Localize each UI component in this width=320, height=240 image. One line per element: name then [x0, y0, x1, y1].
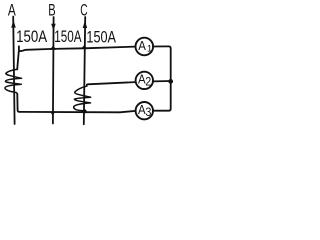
wire phase B line — [52, 17, 55, 124]
svg-text:150A: 150A — [86, 28, 116, 46]
svg-text:A: A — [138, 39, 146, 53]
wire bottom bus to A3 — [20, 111, 136, 112]
wire A2 left lead from CT-C — [87, 82, 136, 85]
hop bump top bus over C — [81, 45, 87, 49]
hop bump bottom bus under B — [50, 112, 55, 116]
svg-text:1: 1 — [147, 43, 152, 54]
svg-text:150A: 150A — [54, 28, 81, 46]
svg-text:150A: 150A — [16, 28, 47, 46]
svg-text:B: B — [48, 1, 55, 19]
junction dot right vertical / A2 — [168, 79, 173, 84]
ammeter A1 — [136, 38, 154, 56]
wire A2 right lead — [153, 80, 171, 82]
junction blob CT-C to bottom bus — [83, 109, 87, 113]
ammeter A2 — [136, 72, 153, 89]
svg-text:A: A — [8, 1, 16, 19]
svg-text:3: 3 — [145, 105, 151, 119]
arrow current direction phase B (down) — [51, 24, 56, 31]
svg-text:C: C — [80, 1, 87, 19]
wire CT-A secondary top lead — [17, 51, 19, 69]
wire CT-A secondary bottom lead — [17, 94, 19, 112]
arrow current direction phase C (up) — [83, 21, 88, 28]
hop bump top bus over B — [50, 45, 56, 50]
coil CT-C winding — [74, 85, 91, 112]
coil CT-A winding — [5, 69, 22, 94]
wire phase A line — [13, 17, 14, 125]
wire A1 right lead + right vertical + A3 right lead — [153, 46, 171, 110]
wire top bus to A1 — [19, 46, 135, 51]
svg-text:2: 2 — [145, 74, 151, 88]
wire phase C line — [84, 17, 85, 124]
ammeter A3 — [136, 102, 153, 119]
arrow current direction phase A (up) — [11, 20, 16, 27]
